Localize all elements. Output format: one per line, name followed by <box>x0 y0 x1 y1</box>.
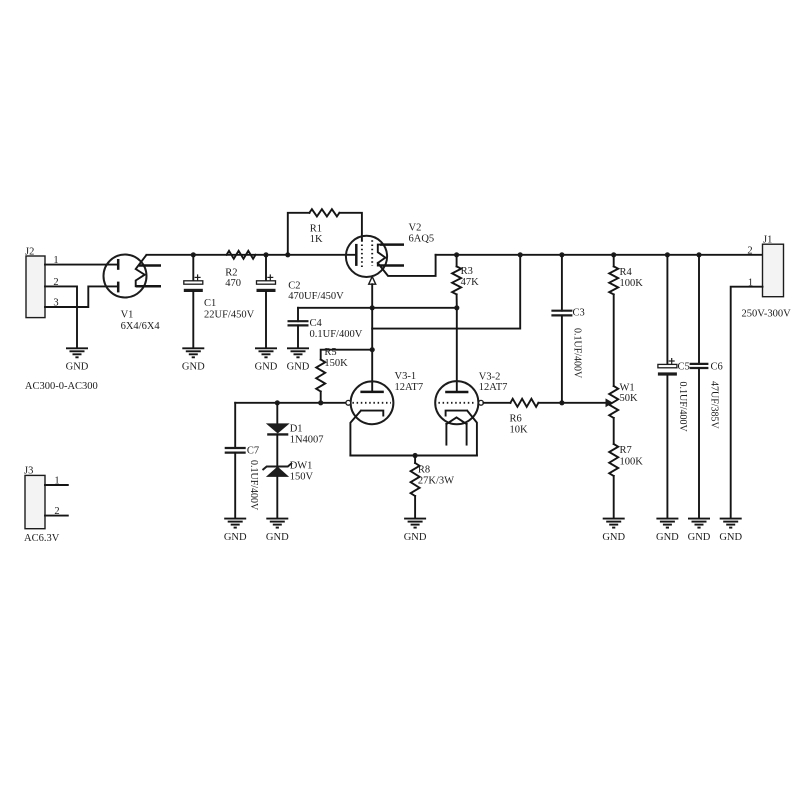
svg-text:GND: GND <box>602 532 625 543</box>
svg-text:V3-1: V3-1 <box>395 371 417 382</box>
svg-text:GND: GND <box>255 362 278 373</box>
svg-text:2: 2 <box>54 506 59 517</box>
node R8 junction <box>413 453 418 458</box>
node A junction at V2 grid <box>370 305 375 310</box>
wire R3 node to V3-2 plate <box>456 308 458 392</box>
svg-text:C4: C4 <box>310 318 323 329</box>
svg-text:10K: 10K <box>510 425 529 436</box>
svg-text:GND: GND <box>66 362 89 373</box>
node D1 junction <box>275 400 280 405</box>
svg-text:12AT7: 12AT7 <box>479 382 508 393</box>
svg-text:250V-300V: 250V-300V <box>742 309 792 320</box>
svg-text:47K: 47K <box>461 277 480 288</box>
svg-text:R2: R2 <box>225 268 237 279</box>
ground GND (C6) <box>688 519 711 543</box>
node R5 junction <box>370 347 375 352</box>
svg-text:W1: W1 <box>620 382 635 393</box>
wire reference bus (C7 to V3-1 grid) <box>235 402 346 404</box>
svg-text:1K: 1K <box>310 234 323 245</box>
svg-text:150K: 150K <box>324 358 348 369</box>
svg-text:R4: R4 <box>620 267 633 278</box>
svg-text:27K/3W: 27K/3W <box>418 476 454 487</box>
capacitor C7 <box>225 403 259 518</box>
resistor R3 <box>452 255 479 308</box>
svg-text:GND: GND <box>719 532 742 543</box>
wire J2 pin 2 to ground <box>45 277 77 348</box>
wire J2 pin 1 to V1 plate <box>45 255 118 266</box>
svg-text:100K: 100K <box>620 278 644 289</box>
svg-text:1: 1 <box>53 255 58 266</box>
node R5 bottom junction <box>318 400 323 405</box>
svg-text:1N4007: 1N4007 <box>290 434 324 445</box>
node L2 bus junction <box>518 252 523 257</box>
wire J3 pin 2 <box>45 506 68 517</box>
resistor R7 <box>609 444 643 518</box>
connector J3 <box>24 466 45 529</box>
svg-text:R3: R3 <box>461 266 473 277</box>
svg-text:GND: GND <box>404 532 427 543</box>
node R3 top junction <box>454 252 459 257</box>
ground GND (R8) <box>404 519 427 543</box>
wire V2 grid-2 stem with arrow <box>369 277 376 308</box>
svg-text:V1: V1 <box>121 310 134 321</box>
wire J2 pin 3 to V1 plate <box>45 286 118 308</box>
svg-text:C6: C6 <box>711 362 723 373</box>
svg-text:100K: 100K <box>620 456 644 467</box>
svg-text:DW1: DW1 <box>290 461 313 472</box>
svg-text:R5: R5 <box>324 347 336 358</box>
capacitor C4 <box>288 308 363 348</box>
node C5 top junction <box>665 252 670 257</box>
resistor R5 <box>316 347 372 403</box>
wire B+ bus right (V2 cathode to J1) <box>436 254 763 256</box>
node C2 junction <box>263 252 268 257</box>
resistor R6 <box>510 399 607 436</box>
ground GND (C7) <box>224 519 247 543</box>
connector J1 <box>763 235 784 297</box>
svg-text:50K: 50K <box>620 393 639 404</box>
svg-text:GND: GND <box>287 362 310 373</box>
rectifier tube V1 <box>104 255 162 333</box>
node C6 top junction <box>696 252 701 257</box>
resistor R8 <box>411 456 455 519</box>
svg-text:470UF/450V: 470UF/450V <box>288 291 344 302</box>
capacitor C6 <box>690 255 723 518</box>
svg-text:2: 2 <box>53 277 58 288</box>
ground GND (J1) <box>719 519 742 543</box>
svg-text:22UF/450V: 22UF/450V <box>204 309 255 320</box>
wire V3-1 cathode down <box>350 411 361 456</box>
node C3 top junction <box>559 252 564 257</box>
svg-text:D1: D1 <box>290 423 303 434</box>
svg-text:1: 1 <box>748 277 753 288</box>
svg-text:GND: GND <box>224 532 247 543</box>
ground GND (DW1) <box>266 519 289 543</box>
svg-text:AC6.3V: AC6.3V <box>24 533 60 544</box>
resistor R2 <box>225 251 255 289</box>
capacitor C1 <box>184 255 255 348</box>
svg-text:1: 1 <box>54 476 59 487</box>
pentode V2 6AQ5 <box>346 223 434 278</box>
svg-text:6X4/6X4: 6X4/6X4 <box>121 321 161 332</box>
wire L2 V3-1 plate to bus <box>372 255 520 329</box>
svg-text:0.1UF/400V: 0.1UF/400V <box>572 328 583 379</box>
svg-text:12AT7: 12AT7 <box>395 382 424 393</box>
node R1 junction <box>285 252 290 257</box>
svg-text:J2: J2 <box>25 247 34 258</box>
svg-text:R8: R8 <box>418 465 430 476</box>
svg-text:6AQ5: 6AQ5 <box>409 233 435 244</box>
svg-text:R6: R6 <box>510 413 522 424</box>
wire cathode bus <box>350 455 477 457</box>
potentiometer W1 <box>609 382 638 444</box>
svg-text:150V: 150V <box>290 472 314 483</box>
capacitor C2 <box>257 255 345 348</box>
svg-text:J1: J1 <box>763 235 772 246</box>
wire B+ bus left (V1 cathode to V2 plate) <box>147 254 357 256</box>
triode V3-1 12AT7 <box>346 371 423 424</box>
svg-text:47UF/385V: 47UF/385V <box>708 381 719 430</box>
svg-text:0.1UF/400V: 0.1UF/400V <box>677 382 688 433</box>
node A junction at R3 <box>454 305 459 310</box>
svg-text:C3: C3 <box>573 307 585 318</box>
ground GND (R7) <box>602 519 625 543</box>
wiper arrow into W1 <box>606 399 612 406</box>
svg-text:GND: GND <box>182 362 205 373</box>
svg-text:V3-2: V3-2 <box>479 371 501 382</box>
wire J1 pin 1 to ground <box>731 277 763 518</box>
svg-text:GND: GND <box>266 532 289 543</box>
svg-text:C7: C7 <box>247 445 259 456</box>
wire R1 branch <box>288 213 362 255</box>
node C1 junction <box>191 252 196 257</box>
svg-text:R7: R7 <box>620 445 632 456</box>
wire J3 pin 1 <box>45 476 68 487</box>
ground GND (C1) <box>182 348 205 372</box>
svg-text:3: 3 <box>53 298 58 309</box>
triode V3-2 12AT7 <box>435 371 507 444</box>
capacitor C3 <box>551 255 584 403</box>
diode D1 1N4007 <box>267 403 323 446</box>
wire V2 cathode to bus <box>378 255 436 276</box>
svg-text:AC300-0-AC300: AC300-0-AC300 <box>25 381 98 392</box>
svg-text:470: 470 <box>225 278 241 289</box>
node R4 top junction <box>611 252 616 257</box>
wire V3-2 grid to R6 <box>483 402 510 404</box>
ground GND (C2) <box>255 348 278 372</box>
ground GND (C5) <box>656 519 679 543</box>
svg-text:R1: R1 <box>310 224 322 235</box>
svg-text:GND: GND <box>688 532 711 543</box>
svg-text:0.1UF/400V: 0.1UF/400V <box>248 460 259 511</box>
svg-text:C1: C1 <box>204 298 216 309</box>
resistor R4 <box>609 255 643 386</box>
connector J2 <box>25 247 45 318</box>
ground GND (C4) <box>287 348 310 372</box>
node C3 bottom junction <box>559 400 564 405</box>
zener diode DW1 150V <box>263 461 314 519</box>
wire D1 to DW1 <box>276 434 278 466</box>
wire node A (C4 to R3 bottom) <box>298 307 457 309</box>
resistor R1 <box>309 209 339 245</box>
svg-text:J3: J3 <box>24 466 33 477</box>
svg-text:0.1UF/400V: 0.1UF/400V <box>310 329 363 340</box>
svg-text:2: 2 <box>747 245 752 256</box>
svg-text:C5: C5 <box>678 362 690 373</box>
ground GND (J2) <box>66 348 89 372</box>
wire V3-2 cathode down <box>467 411 477 456</box>
capacitor C5 <box>658 255 690 518</box>
wire V3-1 plate branch <box>371 308 373 392</box>
svg-text:V2: V2 <box>409 223 422 234</box>
svg-text:GND: GND <box>656 532 679 543</box>
